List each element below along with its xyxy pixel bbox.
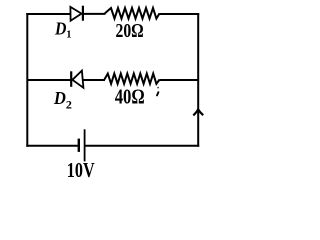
battery negative plate (short, thick) bbox=[78, 139, 80, 152]
wire: left vertical side bbox=[26, 13, 28, 147]
diode D1 (triangle, pointing right) bbox=[70, 7, 81, 21]
battery positive plate (tall, thin) bbox=[84, 129, 86, 161]
wire: top branch left segment bbox=[26, 13, 70, 15]
wire: middle branch mid segment (D2 to R2) bbox=[83, 79, 105, 81]
svg-text:1: 1 bbox=[66, 29, 71, 40]
diode D2 cathode bar bbox=[70, 71, 72, 87]
svg-text:2: 2 bbox=[66, 98, 72, 112]
wire: top branch mid segment (D1 to R1) bbox=[83, 13, 106, 15]
wire: bottom branch right segment bbox=[85, 145, 200, 147]
svg-text:40Ω: 40Ω bbox=[115, 85, 145, 109]
stray dot above tick bbox=[157, 87, 159, 89]
resistor R2 zigzag 40 ohm bbox=[104, 74, 159, 84]
wire: top branch right segment bbox=[159, 13, 199, 15]
stray tick mark after 40 ohm bbox=[157, 92, 158, 95]
wire: middle branch right segment bbox=[160, 79, 199, 81]
wire: middle branch left segment bbox=[27, 79, 71, 81]
svg-text:D: D bbox=[53, 88, 66, 108]
svg-text:10V: 10V bbox=[67, 158, 95, 181]
diode D1 cathode bar bbox=[82, 6, 84, 21]
wire: right vertical side bbox=[197, 13, 199, 147]
arrow: current direction chevron on right wire bbox=[193, 109, 203, 115]
resistor R1 zigzag 20 ohm bbox=[105, 8, 160, 19]
wire: bottom branch left segment bbox=[26, 145, 78, 147]
diode D2 (triangle, pointing left) bbox=[72, 71, 83, 88]
svg-text:D: D bbox=[54, 18, 67, 38]
svg-text:20Ω: 20Ω bbox=[116, 20, 144, 42]
